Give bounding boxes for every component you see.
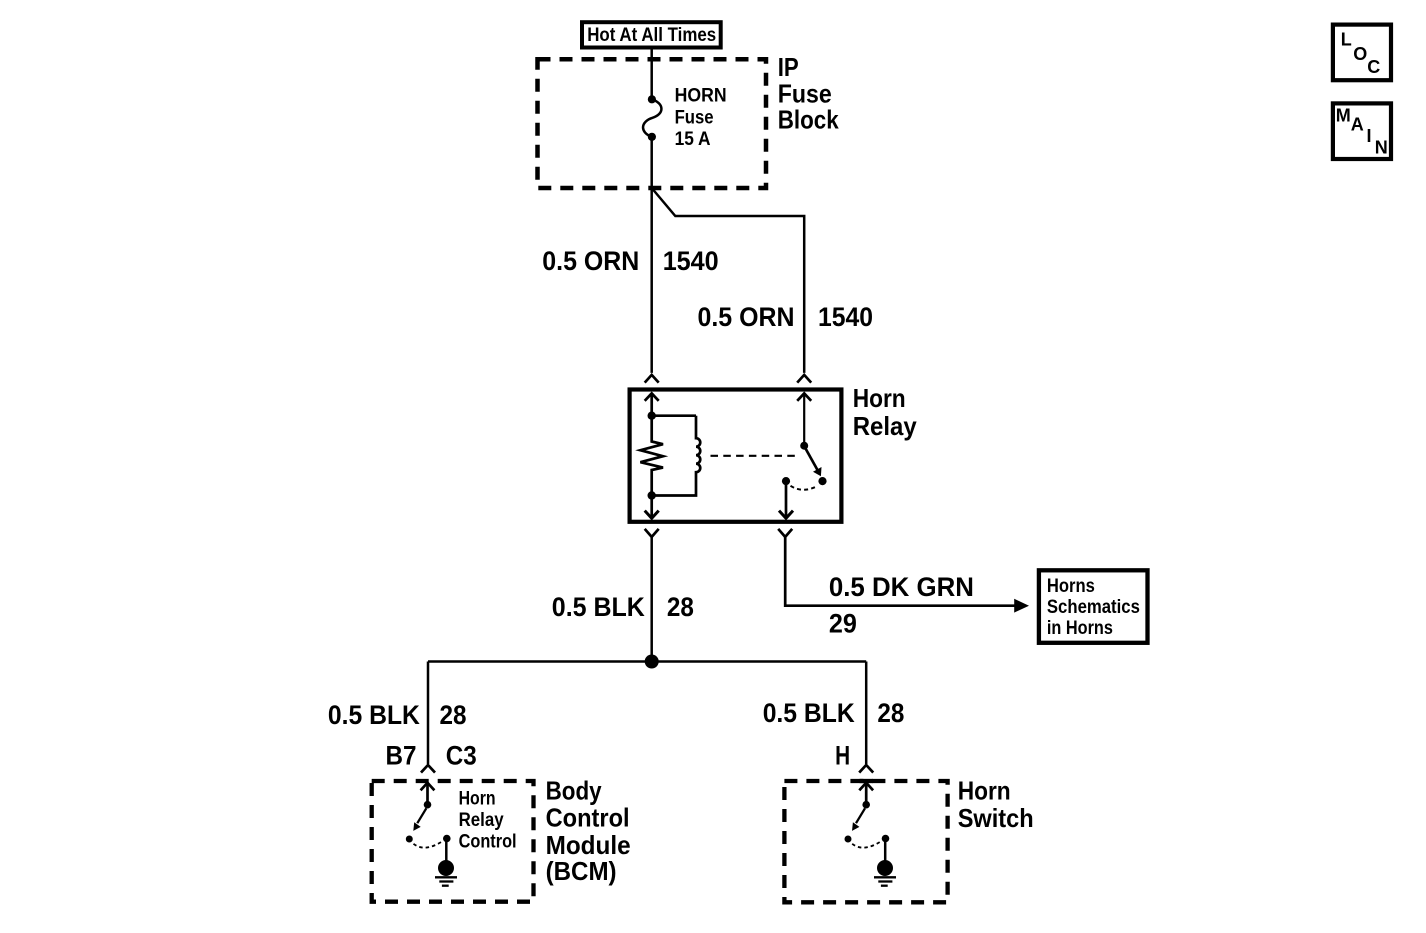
- Horn Switch dashed box: [784, 781, 947, 902]
- svg-text:L: L: [1341, 30, 1352, 50]
- dashed linkage coil to switch: [711, 455, 799, 457]
- svg-text:15 A: 15 A: [675, 129, 711, 150]
- wire from Hot At All Times to fuse: [650, 50, 653, 100]
- horn switch throw contact: [845, 836, 852, 843]
- svg-text:0.5 BLK: 0.5 BLK: [328, 700, 420, 730]
- svg-text:Hot At All Times: Hot At All Times: [587, 25, 716, 46]
- horizontal bus wire: [428, 660, 866, 663]
- svg-text:B7: B7: [386, 741, 417, 771]
- svg-text:Horns: Horns: [1047, 576, 1095, 597]
- wire label 0.5 BLK 28 (right): [763, 698, 905, 728]
- svg-text:0.5 ORN: 0.5 ORN: [542, 246, 639, 276]
- svg-text:Schematics: Schematics: [1047, 597, 1140, 618]
- relay switch arm: [806, 449, 822, 477]
- wire label 0.5 ORN 1540 (left): [542, 246, 718, 276]
- connector chevrons below horn relay: [645, 529, 659, 537]
- connector chevron above horn switch: [859, 765, 873, 773]
- svg-text:Relay: Relay: [459, 810, 504, 831]
- wire label 0.5 ORN 1540 (right): [698, 302, 874, 332]
- svg-text:1540: 1540: [663, 246, 719, 276]
- BCM pin arrow (inside): [421, 783, 435, 805]
- svg-text:(BCM): (BCM): [546, 856, 617, 886]
- svg-text:Fuse: Fuse: [675, 107, 714, 128]
- wire fuse to horn relay: [650, 137, 653, 373]
- relay resistor: [640, 416, 663, 496]
- Hot At All Times box: [582, 22, 721, 47]
- svg-text:0.5 DK GRN: 0.5 DK GRN: [829, 572, 974, 602]
- Horn Switch label: [958, 776, 1034, 834]
- wire relay pin2 down to junction: [650, 537, 653, 662]
- wire down to horn switch: [865, 662, 868, 765]
- dash at horn switch wire crossing: [860, 779, 874, 783]
- svg-text:N: N: [1375, 138, 1388, 158]
- svg-text:H: H: [835, 741, 850, 771]
- MAIN box: [1333, 103, 1391, 159]
- wire down to BCM: [427, 662, 430, 765]
- BCM switch fixed contact: [443, 835, 451, 843]
- Horns Schematics in Horns box: [1039, 570, 1148, 643]
- LOC box: [1333, 25, 1391, 81]
- svg-text:0.5 BLK: 0.5 BLK: [763, 698, 855, 728]
- svg-text:28: 28: [877, 698, 904, 728]
- svg-text:C3: C3: [446, 741, 477, 771]
- arrowhead to horns schematics: [1014, 599, 1029, 613]
- svg-text:Relay: Relay: [853, 411, 917, 441]
- relay switch throw contact: [818, 477, 826, 485]
- Horn Relay label: [853, 383, 917, 441]
- svg-text:Body: Body: [546, 775, 602, 805]
- horn switch ground: [874, 860, 896, 886]
- dashed throw arc: [791, 486, 817, 490]
- relay pin 3 arrow (top right, inside): [797, 393, 811, 445]
- wire label 0.5 BLK 28 (upper): [552, 592, 694, 622]
- svg-text:Block: Block: [778, 104, 839, 134]
- node: coil top junction: [648, 412, 656, 420]
- wire label 0.5 BLK 28 (left): [328, 700, 467, 730]
- BCM switch arm: [413, 808, 426, 831]
- horn switch ground stem: [884, 841, 887, 862]
- horn switch arm: [852, 808, 865, 831]
- svg-text:Control: Control: [546, 803, 630, 833]
- svg-text:28: 28: [667, 592, 694, 622]
- pin labels B7 C3: [386, 741, 477, 771]
- svg-text:1540: 1540: [818, 302, 873, 332]
- Body Control Module (BCM) label: [546, 775, 631, 885]
- svg-text:IP: IP: [778, 52, 799, 82]
- svg-text:I: I: [1367, 126, 1372, 146]
- svg-text:A: A: [1351, 114, 1364, 134]
- relay pin 4 arrow (bottom right, inside): [779, 483, 793, 518]
- wire label 0.5 DK GRN 29: [829, 572, 974, 639]
- BCM switch throw contact: [406, 836, 413, 843]
- wire relay pin4 to horns schematics arrow: [785, 537, 1014, 606]
- horn switch fixed contact: [882, 835, 890, 843]
- junction node: [645, 655, 659, 669]
- Horn Relay Control label: [459, 788, 517, 852]
- relay coil: [652, 416, 701, 496]
- svg-text:Horn: Horn: [853, 383, 906, 413]
- svg-text:Horn: Horn: [459, 788, 496, 809]
- relay switch fixed contact: [782, 477, 790, 485]
- horn switch common node: [862, 801, 870, 809]
- horn relay box: [630, 390, 842, 522]
- relay pin 2 arrow (bottom left, inside): [645, 496, 659, 519]
- svg-text:O: O: [1353, 44, 1367, 64]
- relay pin 1 arrow (top left, inside): [645, 393, 659, 415]
- svg-text:HORN: HORN: [675, 85, 727, 106]
- svg-text:M: M: [1336, 105, 1351, 125]
- fuse label HORN Fuse 15 A: [675, 85, 727, 150]
- svg-text:28: 28: [440, 700, 467, 730]
- BCM switch common node: [424, 801, 432, 809]
- BCM dashed throw arc: [414, 842, 443, 848]
- svg-text:Switch: Switch: [958, 803, 1034, 833]
- IP Fuse Block label: [778, 52, 839, 135]
- BCM ground stem: [445, 841, 448, 862]
- BCM dashed box: [372, 781, 534, 902]
- svg-text:0.5 ORN: 0.5 ORN: [698, 302, 795, 332]
- svg-text:Control: Control: [459, 832, 517, 853]
- IP Fuse Block dashed box: [538, 59, 767, 188]
- node: coil bottom junction: [648, 491, 656, 499]
- horn switch dashed throw arc: [852, 842, 881, 848]
- svg-text:C: C: [1367, 57, 1380, 77]
- svg-text:Horn: Horn: [958, 776, 1011, 806]
- BCM ground: [435, 860, 457, 886]
- svg-text:0.5 BLK: 0.5 BLK: [552, 592, 645, 622]
- svg-text:29: 29: [829, 608, 857, 638]
- svg-text:in Horns: in Horns: [1047, 618, 1113, 639]
- connector chevron above BCM: [421, 765, 435, 773]
- connector chevrons at top of horn relay: [645, 375, 659, 383]
- node: switch common: [800, 442, 808, 450]
- wire coil top: [652, 414, 696, 417]
- fuse F1 HORN 15A: [643, 95, 661, 141]
- wire branch to right (second 0.5 ORN): [652, 188, 805, 373]
- horn switch pin arrow (inside): [859, 783, 873, 805]
